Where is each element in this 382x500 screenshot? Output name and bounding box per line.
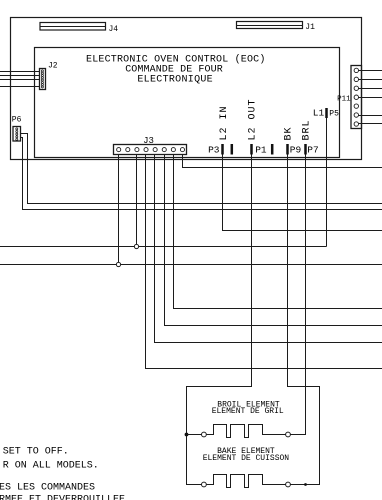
svg-text:J1: J1	[305, 23, 315, 32]
svg-text:P5: P5	[329, 109, 339, 118]
svg-text:ELEMENT DE CUISSON: ELEMENT DE CUISSON	[203, 454, 290, 463]
svg-text:L2 IN: L2 IN	[219, 105, 230, 140]
svg-text:R ON ALL MODELS.: R ON ALL MODELS.	[3, 460, 99, 471]
svg-text:BRL: BRL	[302, 119, 313, 140]
svg-text:P9: P9	[290, 145, 302, 156]
svg-text:L1: L1	[313, 108, 325, 119]
svg-text:P3: P3	[208, 145, 220, 156]
svg-text:ELECTRONIQUE: ELECTRONIQUE	[137, 74, 213, 85]
svg-text:J4: J4	[109, 25, 119, 34]
svg-text:L2 OUT: L2 OUT	[248, 98, 259, 140]
svg-text:J3: J3	[143, 136, 154, 146]
svg-text:SET TO OFF.: SET TO OFF.	[3, 447, 69, 458]
svg-text:J2: J2	[48, 62, 58, 71]
svg-text:P11: P11	[337, 96, 351, 104]
svg-text:P6: P6	[12, 115, 22, 124]
svg-text:P7: P7	[307, 145, 318, 156]
svg-text:ES LES COMMANDES: ES LES COMMANDES	[0, 482, 95, 493]
svg-text:P1: P1	[255, 145, 267, 156]
svg-text:BK: BK	[284, 126, 295, 140]
svg-text:RMEE ET DEVERROUILLEE: RMEE ET DEVERROUILLEE	[0, 495, 125, 500]
svg-text:ELEMENT DE GRIL: ELEMENT DE GRIL	[212, 407, 284, 416]
